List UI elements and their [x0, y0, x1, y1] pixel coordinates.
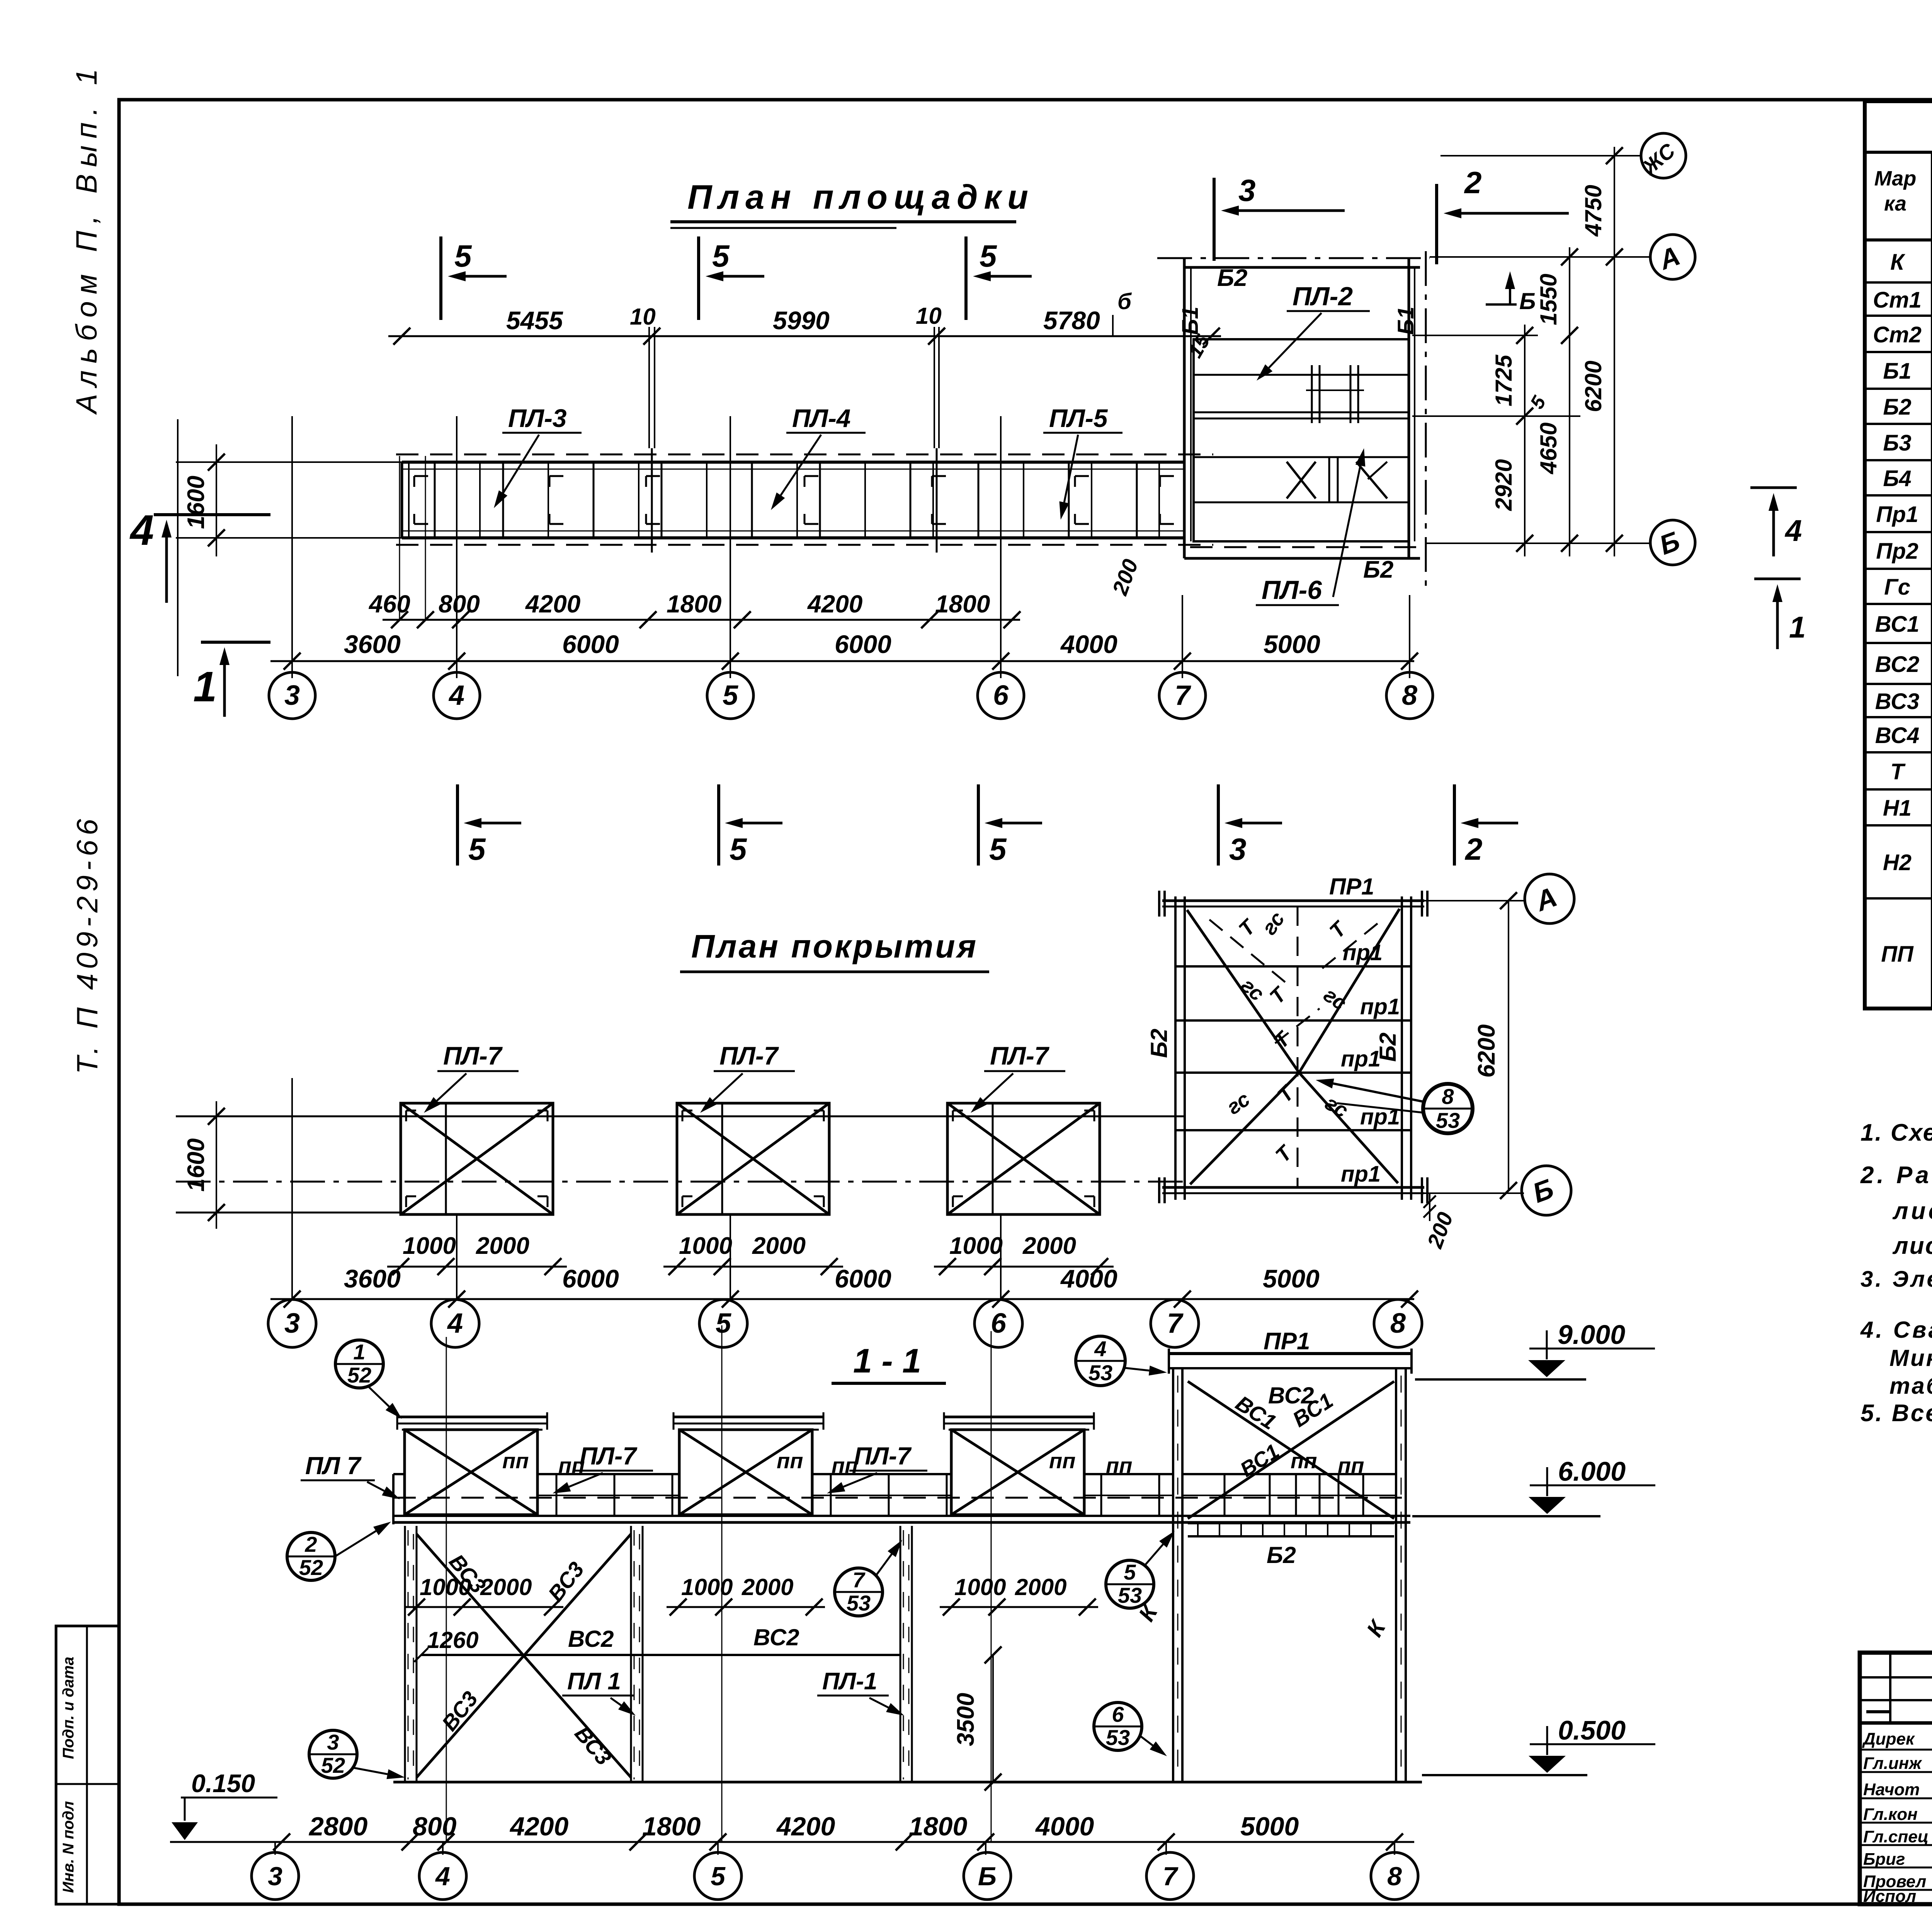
- svg-text:пр1: пр1: [1343, 940, 1383, 965]
- svg-text:4000: 4000: [1060, 630, 1117, 658]
- clip bracket: [549, 475, 563, 477]
- svg-text:Т. П 409-29-66: Т. П 409-29-66: [71, 814, 104, 1074]
- platform braced panel: [679, 1430, 812, 1515]
- svg-text:460: 460: [368, 590, 410, 618]
- svg-text:4: 4: [447, 1308, 463, 1339]
- section marker 5 (top): [697, 236, 700, 320]
- svg-text:ПЛ-6: ПЛ-6: [1262, 575, 1322, 605]
- svg-text:пп: пп: [1106, 1453, 1132, 1478]
- svg-text:0.500: 0.500: [1558, 1715, 1626, 1745]
- strip cut marks: [651, 448, 653, 553]
- svg-text:Н1: Н1: [1883, 796, 1912, 821]
- block dashdot right axis: [1425, 251, 1427, 587]
- svg-text:ВС2: ВС2: [1875, 652, 1920, 677]
- svg-text:1000: 1000: [949, 1233, 1003, 1259]
- section marker 4 (right): [1750, 486, 1797, 489]
- svg-text:5: 5: [989, 832, 1007, 866]
- roof axis circle 3: [268, 1299, 316, 1347]
- top dimension line: [388, 335, 1221, 337]
- svg-text:Б2: Б2: [1883, 395, 1911, 420]
- platform cap beam: [673, 1416, 823, 1418]
- svg-text:2: 2: [1464, 832, 1483, 866]
- block dashdot top: [1157, 257, 1430, 259]
- svg-text:ПЛ 7: ПЛ 7: [305, 1452, 362, 1480]
- clip bracket: [932, 475, 946, 477]
- svg-text:ВС4: ВС4: [1875, 723, 1920, 748]
- svg-text:4. Сварные швы принимать по ра: 4. Сварные швы принимать по расчетным ус…: [1860, 1317, 1932, 1343]
- svg-text:2920: 2920: [1491, 459, 1517, 511]
- roof block dashed center: [1297, 906, 1299, 1187]
- svg-text:1: 1: [1789, 610, 1806, 644]
- left stamp box: [56, 1626, 119, 1904]
- svg-text:6.000: 6.000: [1558, 1456, 1626, 1486]
- svg-text:ПР1: ПР1: [1329, 874, 1374, 900]
- svg-text:3: 3: [284, 680, 300, 711]
- roof bottom extension line: [176, 1212, 401, 1214]
- svg-text:Н2: Н2: [1883, 850, 1912, 875]
- svg-text:7: 7: [1163, 1862, 1179, 1891]
- deck top line segments: [393, 1473, 405, 1475]
- svg-text:5780: 5780: [1043, 306, 1100, 335]
- svg-text:1800: 1800: [935, 590, 990, 618]
- strip bottom chord: [402, 536, 1184, 539]
- svg-text:3: 3: [1238, 173, 1256, 207]
- platform braced panel: [405, 1430, 537, 1515]
- section marker 3 (top): [1213, 178, 1216, 261]
- svg-text:53: 53: [1436, 1108, 1460, 1133]
- svg-text:4: 4: [1094, 1337, 1106, 1361]
- svg-text:Б2: Б2: [1363, 556, 1393, 583]
- block inner rect: [1194, 339, 1409, 541]
- section axis circle 3: [252, 1852, 299, 1900]
- svg-text:4: 4: [129, 507, 154, 554]
- svg-text:3500: 3500: [952, 1693, 979, 1746]
- roof grid dim: [270, 1298, 1414, 1300]
- svg-text:2000: 2000: [476, 1233, 529, 1259]
- section marker 3 (bottom): [1217, 784, 1220, 866]
- axis line 4: [456, 416, 457, 678]
- svg-text:Бриг: Бриг: [1863, 1850, 1905, 1869]
- strip top chord: [402, 461, 1184, 464]
- svg-text:53: 53: [847, 1591, 871, 1615]
- roof panel ПЛ-7 (3): [947, 1103, 1100, 1214]
- dim row 460..: [383, 619, 1020, 621]
- svg-text:ВС2: ВС2: [753, 1624, 799, 1650]
- svg-text:листе КМ-51, блоки ПЛ-3 ÷ П: листе КМ-51, блоки ПЛ-3 ÷ ПЛ-7 смотреть …: [1892, 1198, 1932, 1225]
- axis line 7: [1182, 595, 1183, 678]
- roof block end marks: [1158, 891, 1160, 917]
- axis ext lines to circles: [1440, 155, 1641, 156]
- svg-text:ВС2: ВС2: [568, 1626, 614, 1652]
- svg-text:листе КМ-52.: листе КМ-52.: [1892, 1233, 1932, 1259]
- section marker 2 (top): [1435, 184, 1438, 264]
- svg-text:Б4: Б4: [1883, 466, 1911, 491]
- clip bracket: [1160, 475, 1174, 477]
- svg-text:Гл.инж: Гл.инж: [1863, 1754, 1922, 1773]
- table column lines: [1931, 152, 1932, 1009]
- svg-text:пп: пп: [832, 1453, 858, 1478]
- svg-text:0.150: 0.150: [191, 1769, 255, 1798]
- ground line: [393, 1781, 1422, 1784]
- callout 4/53: [1076, 1336, 1125, 1386]
- svg-text:5: 5: [712, 239, 730, 273]
- svg-text:6000: 6000: [562, 1264, 619, 1293]
- section marker 1 (right): [1754, 578, 1801, 580]
- svg-text:Альбом П, Вып. 1: Альбом П, Вып. 1: [70, 62, 103, 415]
- svg-text:Гл.кон: Гл.кон: [1863, 1805, 1918, 1824]
- svg-text:ПП: ПП: [1881, 942, 1914, 967]
- section marker 1 (left): [201, 641, 270, 644]
- roof axis circle 4: [431, 1299, 479, 1347]
- svg-text:Мар: Мар: [1874, 167, 1917, 190]
- svg-text:53: 53: [1106, 1725, 1130, 1750]
- svg-text:10: 10: [630, 304, 656, 330]
- block small braces: [1328, 457, 1330, 502]
- roof long top line: [176, 1116, 1184, 1117]
- svg-text:53: 53: [1088, 1361, 1112, 1385]
- axis line 8: [1409, 595, 1410, 678]
- svg-text:пп: пп: [777, 1449, 803, 1473]
- svg-text:План покрытия: План покрытия: [691, 928, 978, 964]
- plan axis circle 6: [978, 672, 1024, 719]
- roof axis stubs: [456, 1214, 457, 1299]
- svg-text:5: 5: [454, 239, 472, 273]
- svg-text:6200: 6200: [1473, 1024, 1500, 1078]
- svg-text:5: 5: [468, 832, 486, 866]
- svg-text:Б1: Б1: [1178, 306, 1203, 335]
- svg-text:7: 7: [852, 1568, 866, 1592]
- svg-text:Дирек: Дирек: [1862, 1730, 1915, 1748]
- dims 1000/2000 section: [405, 1606, 563, 1608]
- svg-text:1: 1: [193, 663, 217, 711]
- svg-text:3600: 3600: [344, 630, 401, 658]
- svg-text:5000: 5000: [1263, 1264, 1320, 1293]
- platform cap beam: [397, 1416, 547, 1418]
- circle 8/53: [1423, 1084, 1473, 1133]
- svg-text:ВС3: ВС3: [1875, 689, 1920, 714]
- clip bracket: [414, 475, 428, 477]
- svg-text:Ст2: Ст2: [1873, 322, 1922, 347]
- deck left end: [392, 1474, 395, 1524]
- dim 1600 left: [176, 461, 402, 463]
- svg-text:пр1: пр1: [1360, 994, 1400, 1019]
- plan axis circle 5: [707, 672, 753, 719]
- axis line 6: [1000, 416, 1002, 678]
- svg-text:8: 8: [1442, 1084, 1454, 1109]
- svg-text:800: 800: [439, 590, 480, 618]
- plan axis circle 4: [434, 672, 480, 719]
- axis line 5: [730, 416, 731, 678]
- deck verticals between panels: [556, 1474, 558, 1517]
- svg-text:3: 3: [268, 1862, 282, 1891]
- svg-text:пп: пп: [1049, 1449, 1075, 1473]
- svg-text:ПЛ-4: ПЛ-4: [792, 404, 851, 432]
- roof panel ПЛ-7 (2): [677, 1103, 829, 1214]
- svg-text:1260: 1260: [427, 1627, 478, 1653]
- platform cap beam: [944, 1416, 1094, 1418]
- callout 2/52: [287, 1532, 335, 1580]
- table header lines: [1865, 151, 1932, 154]
- dim 3500: [992, 1655, 994, 1782]
- roof axis circle 7: [1151, 1299, 1199, 1347]
- roof block right column: [1401, 896, 1403, 1200]
- svg-text:ПР1: ПР1: [1264, 1328, 1310, 1355]
- svg-text:1800: 1800: [909, 1812, 967, 1841]
- tall column right: [1395, 1368, 1397, 1782]
- section marker 5 (top): [964, 236, 968, 320]
- tall bay X braces: [1188, 1381, 1394, 1519]
- svg-text:пп: пп: [558, 1453, 585, 1478]
- roof block 6200 dim: [1508, 901, 1509, 1190]
- svg-text:3: 3: [1229, 832, 1247, 866]
- svg-text:1 - 1: 1 - 1: [853, 1342, 921, 1380]
- roof dashdot line: [176, 1181, 1184, 1183]
- svg-text:План площадки: План площадки: [687, 178, 1034, 216]
- svg-text:4750: 4750: [1580, 185, 1606, 236]
- svg-text:ка: ка: [1884, 192, 1906, 215]
- strip left end: [401, 462, 403, 538]
- plan axis circle 7: [1159, 672, 1206, 719]
- roof axis circle 5: [699, 1299, 747, 1347]
- axis line 3: [291, 416, 293, 678]
- svg-text:Ст1: Ст1: [1873, 287, 1922, 313]
- axis circle ЖС: [1641, 133, 1686, 178]
- svg-text:52: 52: [299, 1555, 323, 1580]
- roof block bottom beam: [1162, 1186, 1424, 1189]
- svg-text:ПЛ-7: ПЛ-7: [580, 1442, 638, 1470]
- svg-text:Гс: Гс: [1884, 575, 1910, 600]
- svg-text:1000: 1000: [679, 1233, 732, 1259]
- roof axis circle 8: [1374, 1299, 1422, 1347]
- svg-text:1550: 1550: [1536, 274, 1561, 325]
- callout 7/53: [835, 1568, 883, 1616]
- roof block dashed T diagonals: [1209, 920, 1287, 983]
- svg-text:5000: 5000: [1264, 630, 1320, 658]
- svg-text:2000: 2000: [752, 1233, 806, 1259]
- deck bottom double line: [393, 1515, 1410, 1517]
- callout 1/52: [335, 1340, 383, 1388]
- svg-text:5455: 5455: [506, 306, 563, 335]
- axis line 3 roof: [291, 1078, 293, 1299]
- svg-text:Б1: Б1: [1883, 359, 1911, 384]
- svg-text:Пр2: Пр2: [1876, 539, 1918, 564]
- section axis circle Б: [964, 1852, 1011, 1900]
- svg-text:6000: 6000: [835, 630, 891, 658]
- svg-text:6: 6: [1112, 1702, 1124, 1726]
- block bottom dashed: [1190, 546, 1416, 548]
- ВС2 horizontal tie: [421, 1654, 900, 1656]
- column below deck: [630, 1526, 632, 1782]
- X brace below deck: [417, 1534, 631, 1777]
- svg-text:2: 2: [1464, 165, 1482, 200]
- Б2 beam right bay: [1188, 1522, 1394, 1524]
- svg-text:1600: 1600: [183, 476, 209, 529]
- strip transverse beams: [434, 464, 436, 537]
- svg-text:1600: 1600: [183, 1138, 209, 1192]
- svg-text:5990: 5990: [773, 306, 830, 335]
- column below deck: [900, 1526, 901, 1782]
- svg-text:ПЛ 1: ПЛ 1: [567, 1668, 621, 1695]
- svg-text:Испол: Испол: [1863, 1887, 1916, 1906]
- deck mid rails: [537, 1495, 679, 1496]
- svg-text:4200: 4200: [807, 590, 862, 618]
- svg-text:1725: 1725: [1491, 354, 1517, 406]
- marker Б inside: [1486, 303, 1517, 306]
- svg-text:4200: 4200: [776, 1812, 835, 1841]
- bottom dim row: [170, 1841, 1414, 1843]
- svg-text:7: 7: [1175, 680, 1191, 711]
- svg-text:Б2: Б2: [1217, 265, 1247, 291]
- svg-text:4000: 4000: [1060, 1264, 1117, 1293]
- callout 3/52: [309, 1730, 357, 1778]
- section marker 5 (bottom): [717, 784, 720, 866]
- svg-text:6000: 6000: [562, 630, 619, 658]
- table row lines: [1865, 281, 1932, 284]
- section axis circle 5: [694, 1852, 742, 1900]
- svg-text:3: 3: [327, 1730, 339, 1754]
- svg-text:2000: 2000: [1015, 1574, 1066, 1600]
- svg-text:3. Элементы с неоговоренными у: 3. Элементы с неоговоренными усилиями кр…: [1861, 1267, 1932, 1292]
- strip bottom chord inner: [402, 531, 1184, 532]
- svg-text:5. Все болты М16 класс 5,8, к: 5. Все болты М16 класс 5,8, кроме оговор…: [1861, 1400, 1932, 1427]
- roof axis circle А: [1525, 874, 1574, 923]
- roof block left column: [1174, 896, 1177, 1200]
- callout 6/53: [1094, 1702, 1142, 1750]
- deck dashed centerline: [393, 1497, 1410, 1499]
- table Ведомость элементов: [1865, 101, 1932, 1009]
- block bolt marks: [1311, 365, 1313, 423]
- callout 5/53: [1106, 1560, 1154, 1608]
- svg-text:6: 6: [991, 1308, 1007, 1339]
- svg-text:б: б: [1117, 289, 1132, 314]
- svg-text:ПЛ-7: ПЛ-7: [719, 1041, 779, 1070]
- strip hidden dashed bottom: [396, 544, 1213, 546]
- svg-text:1000: 1000: [403, 1233, 456, 1259]
- section marker 5 (top): [439, 236, 442, 320]
- svg-text:1: 1: [353, 1340, 365, 1364]
- svg-text:Б3: Б3: [1883, 430, 1911, 456]
- svg-text:ПЛ-1: ПЛ-1: [822, 1668, 877, 1695]
- roof block beams: [1175, 965, 1411, 968]
- svg-text:ПЛ-7: ПЛ-7: [854, 1442, 912, 1470]
- svg-text:Начот: Начот: [1863, 1780, 1920, 1799]
- section marker 5 (bottom): [977, 784, 980, 866]
- svg-text:Б: Б: [978, 1862, 997, 1891]
- svg-text:Т: Т: [1890, 759, 1906, 784]
- svg-text:8: 8: [1390, 1308, 1406, 1339]
- svg-text:2800: 2800: [308, 1812, 367, 1841]
- dim chain 4750/6200: [1614, 147, 1615, 556]
- plan axis circle 8: [1386, 672, 1433, 719]
- svg-text:пр1: пр1: [1341, 1162, 1381, 1187]
- title block small dash: [1866, 1710, 1889, 1713]
- section marker 5 (bottom): [456, 784, 459, 866]
- svg-text:4650: 4650: [1536, 422, 1561, 474]
- svg-text:6000: 6000: [835, 1264, 891, 1293]
- svg-text:ПЛ-2: ПЛ-2: [1293, 282, 1353, 311]
- roof block 200 dim: [1429, 1193, 1430, 1221]
- svg-text:Инв. N подл: Инв. N подл: [60, 1801, 77, 1893]
- svg-text:1000: 1000: [420, 1574, 471, 1600]
- svg-text:8: 8: [1387, 1862, 1402, 1891]
- svg-text:Б2: Б2: [1146, 1029, 1172, 1058]
- platform braced panel: [951, 1430, 1084, 1515]
- title block grid: [1860, 1721, 1932, 1725]
- svg-text:10: 10: [916, 303, 942, 329]
- strip hidden dashed top: [396, 454, 1213, 456]
- svg-text:1800: 1800: [642, 1812, 701, 1841]
- section axis circle 8: [1371, 1852, 1418, 1900]
- roof axis circle 6: [975, 1299, 1022, 1347]
- svg-text:3: 3: [284, 1308, 300, 1339]
- dim row 3600..: [270, 660, 1414, 662]
- svg-text:6: 6: [993, 680, 1009, 711]
- svg-text:3600: 3600: [344, 1264, 401, 1293]
- svg-text:52: 52: [347, 1363, 371, 1387]
- svg-text:5: 5: [716, 1308, 731, 1339]
- svg-text:9.000: 9.000: [1558, 1320, 1625, 1350]
- svg-text:2000: 2000: [1022, 1233, 1076, 1259]
- svg-text:4200: 4200: [509, 1812, 568, 1841]
- svg-text:Б2: Б2: [1375, 1032, 1401, 1062]
- axis circle А: [1650, 235, 1695, 279]
- svg-text:пп: пп: [1338, 1453, 1364, 1478]
- clip bracket: [804, 475, 818, 477]
- roof 1600 dim: [216, 1101, 217, 1229]
- svg-text:таблице 48 СНиП ПΙΙ - В.3 -: таблице 48 СНиП ПΙΙ - В.3 - 72.: [1889, 1373, 1932, 1399]
- clip bracket: [1075, 475, 1089, 477]
- column below deck: [404, 1526, 406, 1782]
- left extension vertical: [177, 419, 179, 676]
- title block box: [1860, 1653, 1932, 1904]
- svg-text:2. Разрезы 2-2 ÷ 6-6 и блоки: 2. Разрезы 2-2 ÷ 6-6 и блоки ПЛ-1, ПЛ-2 …: [1860, 1162, 1932, 1189]
- svg-text:Б: Б: [1519, 288, 1536, 314]
- svg-text:5: 5: [723, 680, 738, 711]
- svg-text:6200: 6200: [1580, 361, 1606, 412]
- svg-text:Б2: Б2: [1267, 1542, 1296, 1568]
- svg-text:52: 52: [321, 1753, 345, 1777]
- svg-text:4: 4: [435, 1862, 450, 1891]
- svg-text:ВС1: ВС1: [1875, 612, 1920, 637]
- svg-text:7: 7: [1167, 1308, 1184, 1339]
- svg-text:Б1: Б1: [1393, 306, 1418, 335]
- svg-text:ПЛ-5: ПЛ-5: [1049, 404, 1108, 432]
- block beams: [1194, 374, 1409, 376]
- block top beam: [1184, 266, 1420, 269]
- roof block top beam ПР1: [1162, 900, 1424, 902]
- dim chain 1550/4650: [1569, 247, 1570, 556]
- svg-text:4200: 4200: [525, 590, 580, 618]
- svg-text:5000: 5000: [1240, 1812, 1299, 1841]
- svg-text:5: 5: [980, 239, 997, 273]
- svg-text:1800: 1800: [667, 590, 721, 618]
- axis circle Б: [1650, 520, 1695, 565]
- section axis circle 7: [1146, 1852, 1194, 1900]
- svg-text:2000: 2000: [480, 1574, 532, 1600]
- svg-text:800: 800: [413, 1812, 457, 1841]
- svg-text:4: 4: [448, 680, 464, 711]
- tall column left: [1172, 1368, 1174, 1782]
- svg-text:пп: пп: [502, 1449, 529, 1473]
- dim chain 1725/2920: [1524, 325, 1526, 556]
- roof panel ПЛ-7 (1): [401, 1103, 553, 1214]
- section axis circle 4: [419, 1852, 466, 1900]
- svg-text:4: 4: [1784, 514, 1802, 548]
- svg-text:8: 8: [1402, 680, 1417, 711]
- svg-text:Пр1: Пр1: [1876, 502, 1918, 527]
- plan axis circle 3: [269, 672, 315, 719]
- svg-text:5: 5: [711, 1862, 726, 1891]
